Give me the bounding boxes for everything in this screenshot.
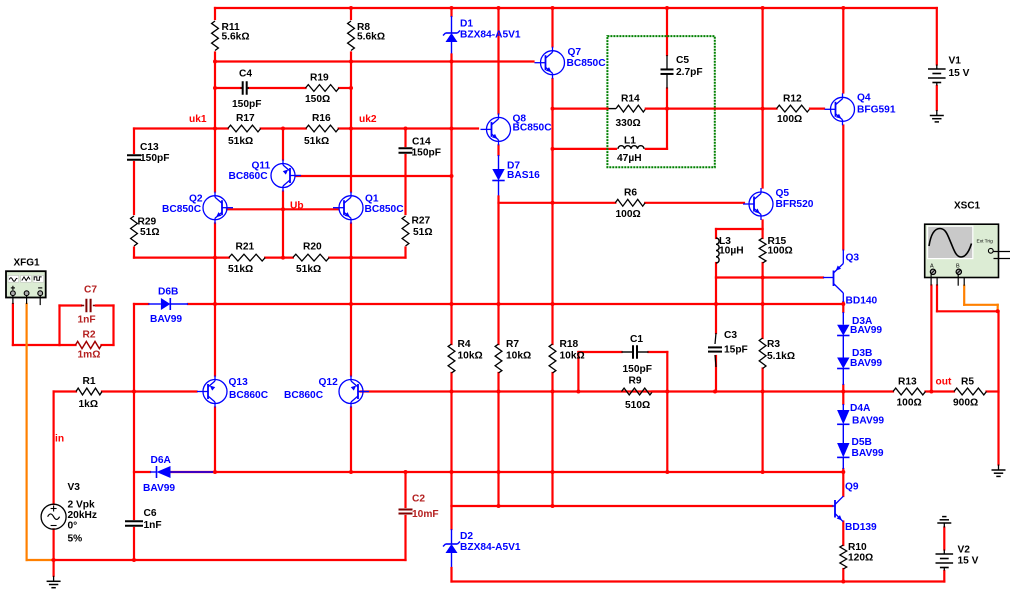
svg-text:150pF: 150pF [140,153,169,164]
svg-text:5.1kΩ: 5.1kΩ [767,351,795,362]
wire oscillator bottom row R21/R20 [134,257,229,259]
wire orange XFG1 common [26,304,28,560]
svg-text:uk1: uk1 [189,114,207,125]
svg-text:C3: C3 [724,330,737,341]
wire Q9 base row [452,505,833,507]
svg-text:L1: L1 [624,136,636,147]
resistor R12 [777,105,811,112]
transistor Q13 [203,380,227,404]
svg-text:1kΩ: 1kΩ [79,399,99,410]
ground at V1 [936,110,938,116]
svg-text:100Ω: 100Ω [777,114,802,125]
svg-text:20kHz: 20kHz [68,510,97,521]
capacitor C6 [125,520,143,522]
wire Q7/R18 column x=552.5 [551,8,553,47]
svg-text:D5B: D5B [852,437,872,448]
svg-text:510Ω: 510Ω [625,400,650,411]
wire V1 column [936,8,938,65]
resistor R21 [229,254,265,261]
svg-text:Q4: Q4 [857,93,871,104]
svg-text:Q11: Q11 [252,161,271,172]
svg-text:BC860C: BC860C [229,390,269,401]
svg-text:1nF: 1nF [144,520,162,531]
battery V2 [943,550,945,555]
svg-text:out: out [936,377,952,388]
svg-text:Ext Trig: Ext Trig [977,239,994,245]
capacitor C4 [242,81,244,95]
zener diode D1 [446,33,458,42]
resistor R2 [76,341,102,348]
svg-text:15 V: 15 V [958,556,979,567]
svg-text:R12: R12 [783,94,802,105]
svg-text:51Ω: 51Ω [413,227,433,238]
svg-text:BC850C: BC850C [365,204,405,215]
svg-text:100Ω: 100Ω [768,246,793,257]
svg-text:R6: R6 [624,188,637,199]
transistor Q1 [339,196,363,220]
svg-text:V2: V2 [958,545,971,556]
diode D5B [837,443,849,457]
svg-text:10µH: 10µH [719,246,744,257]
resistor R3 [759,338,766,369]
svg-text:R16: R16 [312,113,331,124]
svg-text:15pF: 15pF [724,345,748,356]
svg-text:Q7: Q7 [568,47,582,58]
svg-text:R29: R29 [138,217,157,228]
svg-text:1nF: 1nF [78,315,96,326]
svg-text:2 Vpk: 2 Vpk [68,500,96,511]
svg-text:150pF: 150pF [232,99,261,110]
wire uk row [134,127,228,129]
wire L3/R15 bottom row to Q3 base [716,276,823,278]
transistor Q11 [271,164,295,188]
svg-text:10kΩ: 10kΩ [458,351,483,362]
svg-text:R5: R5 [961,377,974,388]
capacitor C1 [632,345,634,359]
wire main out row [54,390,76,392]
capacitor C13 [127,154,141,156]
inductor L1 [618,146,644,149]
svg-text:R7: R7 [506,339,519,350]
svg-text:BC850C: BC850C [567,58,607,69]
wire D7/R6/Q5 row [499,202,616,204]
wire XSC1 B orange [963,286,965,305]
svg-text:R3: R3 [767,339,780,350]
svg-text:BAV99: BAV99 [852,448,884,459]
resistor R17 [228,125,261,132]
svg-text:2.7pF: 2.7pF [676,67,703,78]
diode D3A [837,325,849,336]
resistor R4 [448,344,455,373]
transistor Q3 (BD140) [833,271,835,287]
svg-text:900Ω: 900Ω [953,398,978,409]
svg-text:BC850C: BC850C [162,204,202,215]
svg-text:330Ω: 330Ω [616,118,641,129]
wire Q8/D7/R7 column x=498.5 [497,8,499,114]
resistor R19 [306,85,340,92]
wire C14/R27 column x=405.5 [404,129,406,147]
wire XFG1 to C7 loop [12,304,14,345]
resistor R5 [954,388,987,395]
svg-text:100Ω: 100Ω [616,209,641,220]
svg-text:C2: C2 [412,494,425,505]
svg-text:Q1: Q1 [365,194,379,205]
wire emitter row y472 [134,471,150,473]
svg-text:150pF: 150pF [412,148,441,159]
resistor R15 [759,238,766,263]
wire C4/R19 row [215,87,241,89]
svg-text:1mΩ: 1mΩ [78,350,101,361]
wire C7/R2 loop [60,304,82,306]
svg-text:XFG1: XFG1 [14,258,41,269]
svg-text:Q2: Q2 [189,194,203,205]
resistor R27 [402,216,409,246]
svg-text:BD139: BD139 [845,522,877,533]
svg-text:51kΩ: 51kΩ [228,136,253,147]
capacitor C5 [661,68,674,70]
ground at R5 [998,465,1000,471]
svg-text:5.6kΩ: 5.6kΩ [357,32,385,43]
ac source V3 [41,504,66,529]
wire top supply bus [215,7,937,9]
capacitor C7 [85,299,87,313]
svg-text:D2: D2 [460,531,473,542]
svg-text:BZX84-A5V1: BZX84-A5V1 [460,542,521,553]
svg-text:BAV99: BAV99 [150,314,182,325]
svg-text:BZX84-A5V1: BZX84-A5V1 [460,30,521,41]
wire Q4/Q3/diode column x=843.3 [842,8,844,93]
wire D1/R4/D2 column x=451.5 [450,8,452,16]
resistor R11 [212,21,219,51]
svg-text:Ub: Ub [290,201,304,212]
svg-text:R1: R1 [83,376,96,387]
svg-text:D1: D1 [460,19,473,30]
svg-text:BC860C: BC860C [229,171,269,182]
svg-text:BAV99: BAV99 [850,358,882,369]
svg-text:D6B: D6B [158,287,178,298]
svg-text:C5: C5 [676,55,689,66]
wire Q11 base row [296,175,452,177]
svg-text:R9: R9 [629,376,642,387]
svg-text:D6A: D6A [151,455,172,466]
wire C1 top row [578,351,621,353]
svg-text:BAV99: BAV99 [143,483,175,494]
svg-text:Q12: Q12 [319,377,339,388]
svg-text:150Ω: 150Ω [305,94,330,105]
svg-text:Q9: Q9 [845,482,859,493]
svg-text:R14: R14 [621,94,640,105]
svg-text:C1: C1 [630,334,643,345]
svg-text:15 V: 15 V [949,68,970,79]
resistor R9 [622,388,653,395]
wire C13/R29 column x=134 [133,129,135,154]
transistor Q8 [487,117,511,141]
svg-text:51kΩ: 51kΩ [304,136,329,147]
svg-text:D4A: D4A [850,403,871,414]
svg-text:BD140: BD140 [846,296,878,307]
resistor R14 [616,105,646,112]
wire C1 loop verticals [577,352,579,392]
svg-text:R18: R18 [560,339,579,350]
svg-text:BAV99: BAV99 [852,416,884,427]
svg-text:R13: R13 [898,377,917,388]
svg-text:C6: C6 [144,508,157,519]
svg-text:R21: R21 [236,242,255,253]
svg-text:C13: C13 [140,142,159,153]
wire Q5/R15/R3 column x=762.6 [761,8,763,188]
wire main column x=215 [214,8,216,19]
transistor Q5 [749,192,773,216]
svg-text:51kΩ: 51kΩ [228,264,253,275]
svg-text:51Ω: 51Ω [140,227,160,238]
svg-text:150pF: 150pF [623,364,652,375]
svg-text:BAS16: BAS16 [507,170,540,181]
wire R5 right / scope ground column [997,311,999,464]
resistor R29 [131,216,138,246]
svg-text:Q5: Q5 [776,188,790,199]
capacitor C2 [399,509,413,511]
svg-text:0°: 0° [68,521,78,532]
svg-text:R10: R10 [848,542,867,553]
svg-text:R20: R20 [303,242,322,253]
wire L3/C3 column x=716 [715,229,717,238]
transistor Q7 [541,51,565,75]
wire Q11 column x=283 [282,129,284,160]
oscilloscope XSC1 [925,224,999,277]
battery V1 [936,65,938,70]
svg-text:R4: R4 [458,339,471,350]
capacitor C14 [399,147,413,149]
wire second bus (R11/R8/D1 bottom to Q7 base) [215,60,534,62]
svg-text:47µH: 47µH [617,153,642,164]
wire V3 column [52,392,54,505]
resistor R13 [893,388,926,395]
wire bottom-right supply bus [452,580,945,582]
wire V2 column [943,528,945,550]
svg-text:10kΩ: 10kΩ [560,351,585,362]
svg-text:XSC1: XSC1 [954,201,981,212]
svg-text:10mF: 10mF [412,509,439,520]
transistor Q12 [339,380,363,404]
junction dots [349,6,353,10]
wire C5 column x=667 [666,8,668,55]
svg-text:5.6kΩ: 5.6kΩ [222,32,250,43]
green subcircuit box [607,36,714,167]
diode D7 [492,169,504,181]
resistor R20 [293,254,329,261]
svg-text:R17: R17 [236,113,255,124]
wire R14/R12 row [646,107,777,109]
wire bottom-left ground bus [27,559,53,561]
resistor R1 [76,388,102,395]
wire D6B/C6 column x=134 [133,304,135,519]
function generator XFG1 [6,271,46,297]
wire L1 row [553,148,617,150]
wire XSC1 A- to R5 right [936,286,938,312]
resistor R18 [549,344,556,373]
capacitor C3 [708,346,722,348]
ground at V2 [942,516,946,518]
svg-text:R27: R27 [412,216,431,227]
resistor R16 [306,125,339,132]
wire XSC1 A probe to out [930,286,932,392]
resistor R7 [495,344,502,373]
transistor Q2 [203,196,227,220]
inductor L3 [716,238,719,263]
diode D6A [150,471,157,473]
resistor R10 [840,545,847,569]
svg-text:V3: V3 [68,482,81,493]
resistor R8 [348,21,355,51]
svg-text:120Ω: 120Ω [848,553,873,564]
svg-text:Q13: Q13 [229,377,249,388]
svg-text:V1: V1 [949,56,962,67]
svg-text:uk2: uk2 [359,114,377,125]
svg-text:R2: R2 [83,330,96,341]
svg-text:C14: C14 [412,137,431,148]
zener diode D2 [446,544,458,553]
diode D6B [148,303,161,305]
svg-text:R19: R19 [310,73,329,84]
wire main column x=351 [350,8,352,19]
wire C2 column x=405.5 [404,472,406,507]
svg-text:10kΩ: 10kΩ [506,351,531,362]
wire Ub row [227,208,339,210]
svg-text:Q3: Q3 [846,253,860,264]
svg-text:100Ω: 100Ω [897,398,922,409]
svg-text:5%: 5% [68,534,83,545]
ground at V3 [53,576,55,582]
svg-text:BFG591: BFG591 [857,105,896,116]
resistor R6 [615,199,645,206]
wire D6B row [134,303,148,305]
svg-text:C7: C7 [84,285,97,296]
diode D4A [837,410,849,424]
svg-text:BC850C: BC850C [513,123,553,134]
transistor Q4 [831,97,855,121]
svg-text:BC860C: BC860C [284,390,324,401]
transistor Q9 (BD139) [834,500,836,518]
svg-text:in: in [55,434,64,445]
svg-text:BAV99: BAV99 [850,325,882,336]
svg-text:51kΩ: 51kΩ [296,264,321,275]
diode D3B [837,358,849,369]
svg-text:C4: C4 [239,69,252,80]
wire Q5 emitter row [716,228,763,230]
svg-text:BFR520: BFR520 [776,199,814,210]
